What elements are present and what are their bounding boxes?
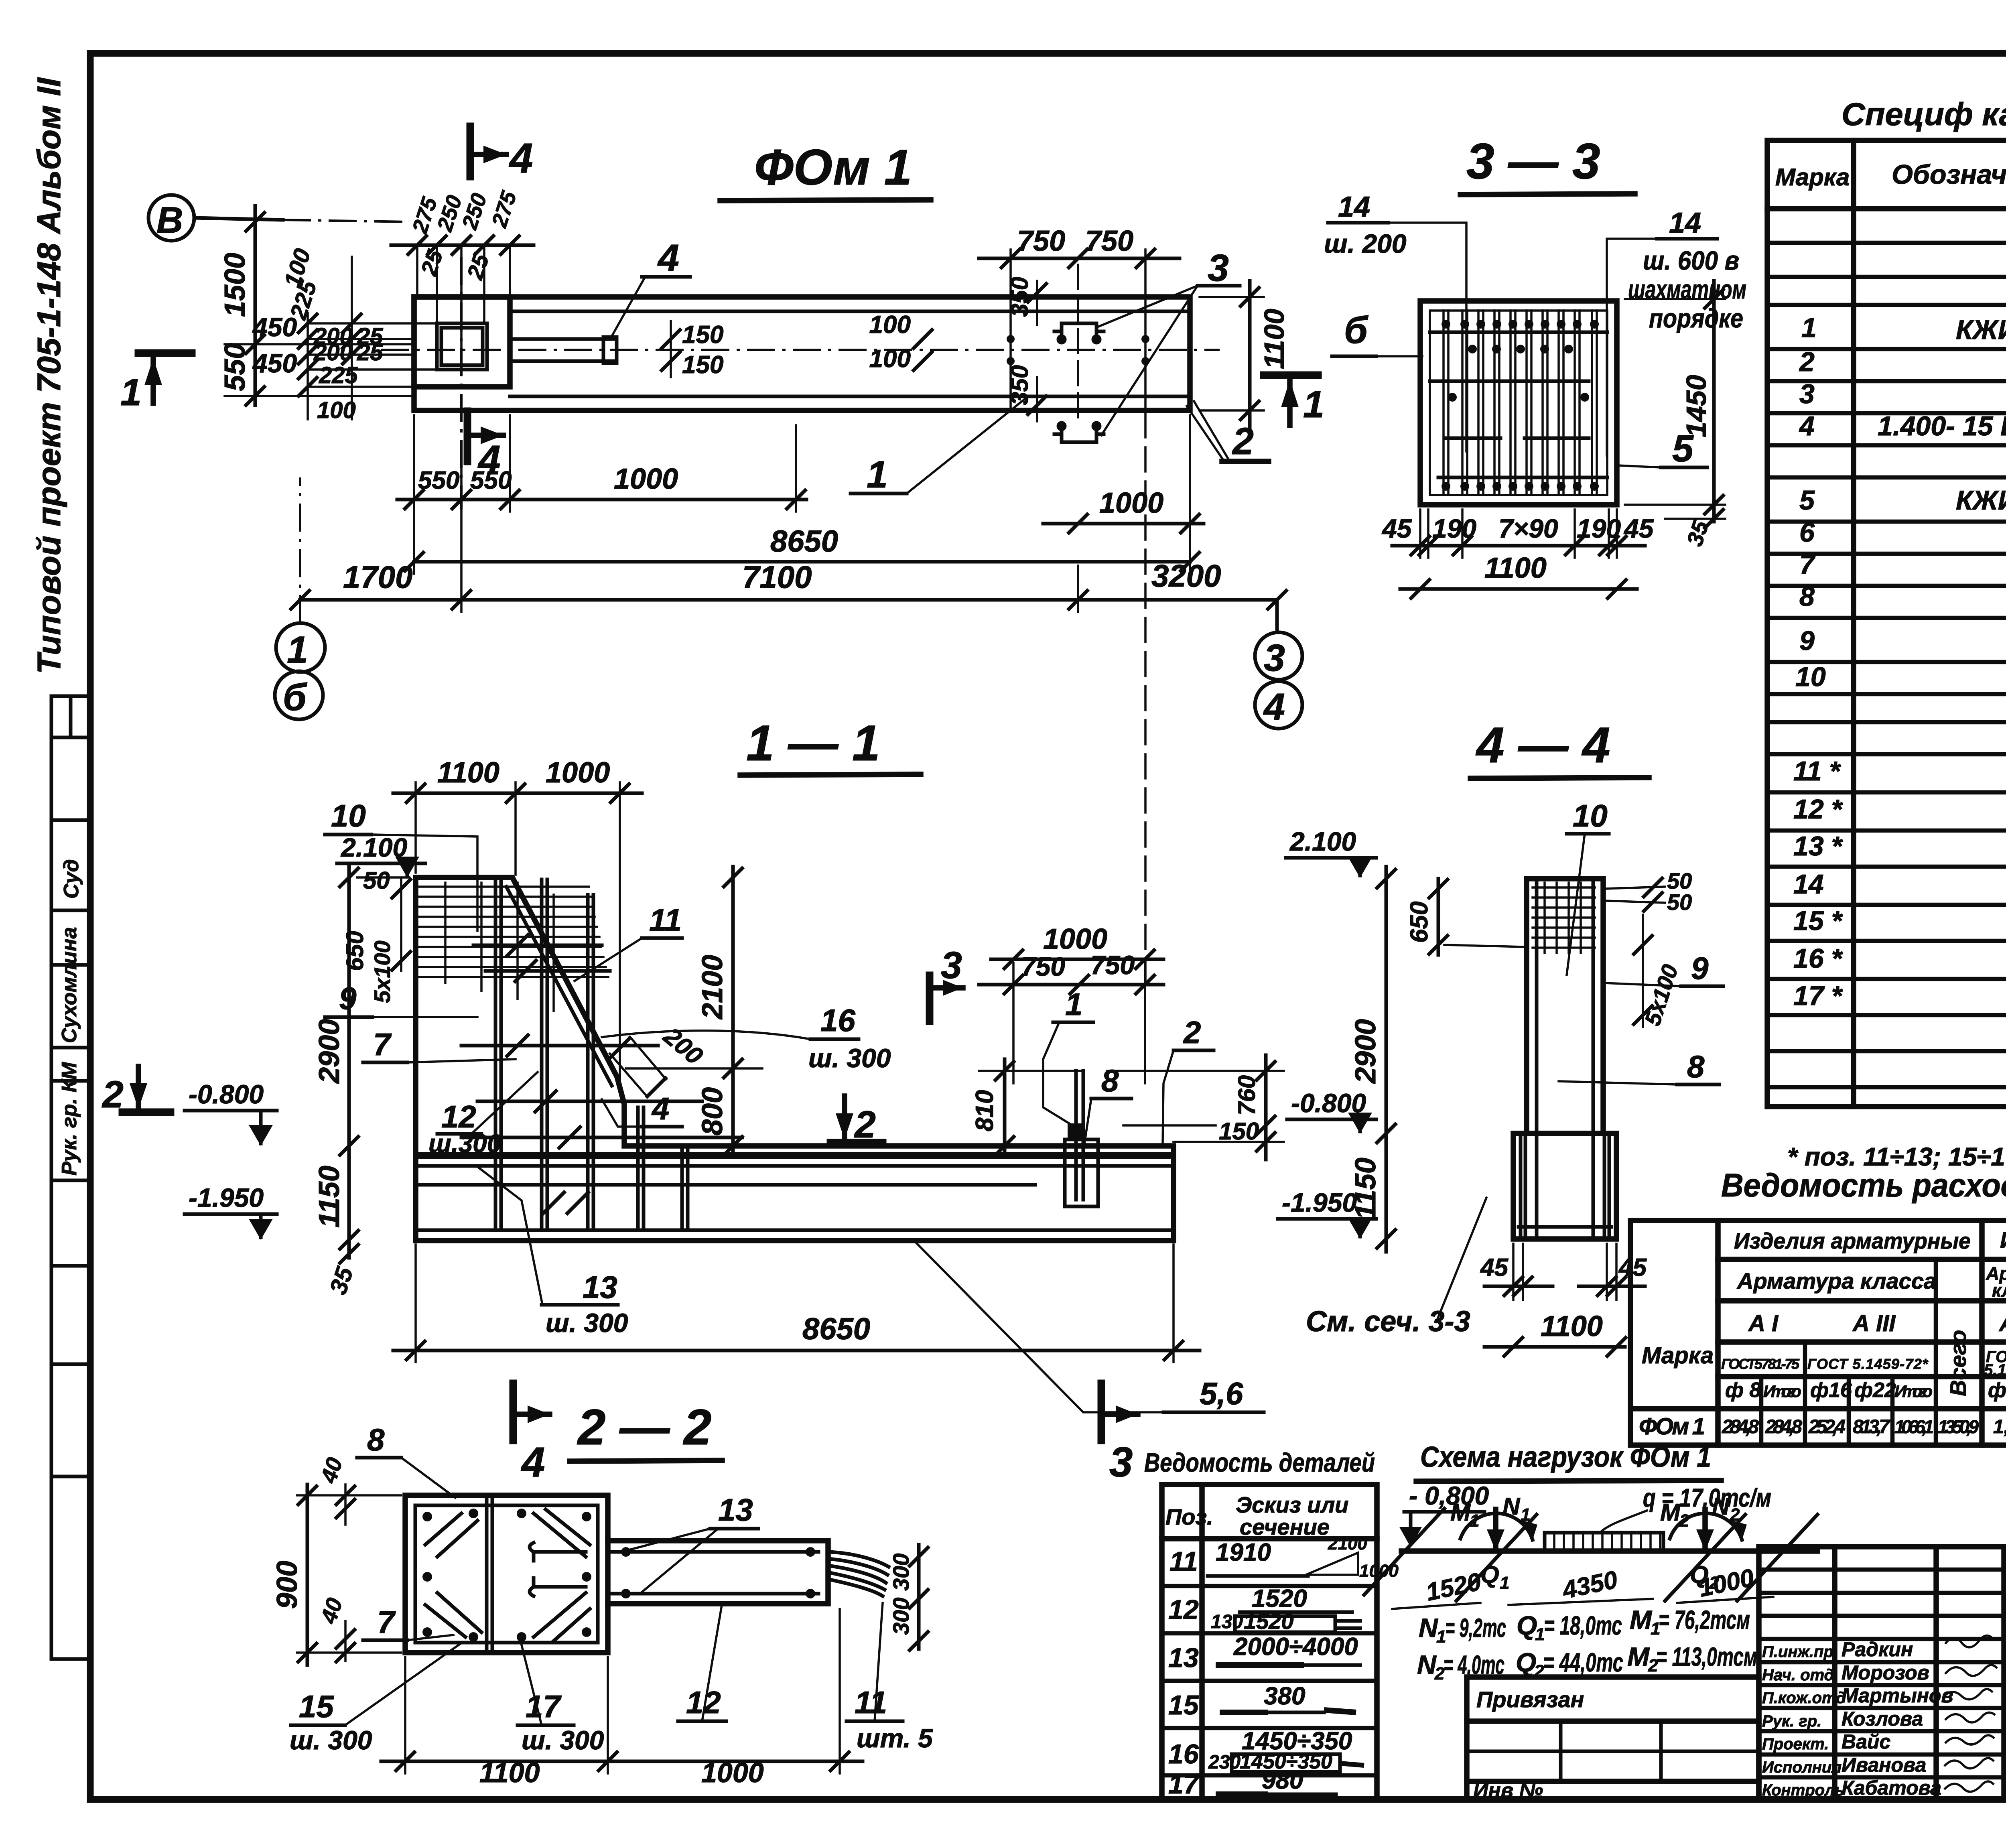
svg-text:1: 1 bbox=[1470, 1511, 1479, 1531]
section 1-1 mid bar line bbox=[417, 1183, 1035, 1187]
svg-text:ФОм 1: ФОм 1 bbox=[754, 140, 912, 195]
svg-text:10: 10 bbox=[331, 798, 366, 833]
svg-text:П.кож.отд: П.кож.отд bbox=[1762, 1689, 1846, 1707]
label 1 leader (embed) bbox=[1043, 987, 1093, 1123]
section 3-3 footing square bbox=[1420, 301, 1617, 505]
svg-text:Радкин: Радкин bbox=[1842, 1638, 1913, 1661]
section 3-3 title bbox=[1460, 134, 1635, 195]
spec row 1 bbox=[1801, 301, 2006, 352]
plan beam outline bbox=[414, 297, 1190, 410]
section marker 4 below 1-1 bbox=[513, 1383, 550, 1486]
svg-text:4: 4 bbox=[521, 1439, 545, 1486]
svg-text:813,7: 813,7 bbox=[1853, 1416, 1890, 1438]
label 8 (4-4) bbox=[1559, 1049, 1719, 1084]
svg-text:Итого: Итого bbox=[1894, 1382, 1933, 1401]
label 13 sh.300 (1-1) bbox=[477, 1167, 628, 1338]
top dims 275 250 250 275 over footing bbox=[391, 188, 534, 369]
svg-text:1,0: 1,0 bbox=[1993, 1416, 2006, 1438]
dim 760 150 right end of base bbox=[1107, 1055, 1284, 1160]
svg-text:25: 25 bbox=[357, 339, 383, 366]
svg-text:сечение: сечение bbox=[1240, 1514, 1330, 1539]
dims 50 50 5x100 right of 4-4 bbox=[1605, 868, 1692, 1029]
svg-text:N: N bbox=[1417, 1650, 1437, 1679]
section 3-3 rebar dots bbox=[1442, 320, 1599, 491]
label 7 (1-1) bbox=[363, 1027, 516, 1062]
svg-text:14: 14 bbox=[1793, 869, 1824, 900]
signature squiggles bbox=[1944, 1636, 1996, 1792]
plan footing square bbox=[414, 297, 510, 387]
label 17 sh.300 (2-2) bbox=[518, 1645, 604, 1755]
svg-text:11: 11 bbox=[649, 902, 682, 938]
dims 45 190 7x90 190 45 under 3-3 bbox=[1381, 510, 1654, 558]
section marker 2 (in 1-1) bbox=[830, 1096, 883, 1146]
section 1-1 mesh hatch top-left bbox=[419, 883, 608, 1011]
label 2 leader (embed right) bbox=[1163, 1015, 1214, 1143]
plan title FOm 1 bbox=[720, 140, 931, 201]
svg-text:252,4: 252,4 bbox=[1808, 1416, 1846, 1438]
svg-text:9: 9 bbox=[1799, 625, 1815, 656]
svg-text:11: 11 bbox=[855, 1685, 887, 1720]
svg-text:900: 900 bbox=[271, 1561, 303, 1609]
svg-text:10: 10 bbox=[1795, 662, 1826, 692]
dim 550 550 1000 under footing bbox=[397, 415, 806, 512]
svg-text:45: 45 bbox=[1623, 514, 1654, 543]
svg-text:2900: 2900 bbox=[313, 1019, 345, 1084]
svg-text:760: 760 bbox=[1233, 1075, 1260, 1115]
section 3-3 vertical rebars bbox=[1444, 311, 1597, 495]
axis circle 1 (left) bbox=[276, 623, 325, 672]
svg-text:Итого: Итого bbox=[1763, 1382, 1801, 1401]
section 1-1 rebar band 5,6 bbox=[418, 1156, 1171, 1166]
title block left rows bbox=[1759, 1570, 2006, 1777]
title block signatures bbox=[1762, 1638, 1953, 1799]
svg-text:= 76,2тсм: = 76,2тсм bbox=[1659, 1605, 1750, 1635]
svg-text:1000: 1000 bbox=[546, 757, 610, 789]
label 2 with leaders bbox=[1187, 401, 1269, 463]
svg-text:1100: 1100 bbox=[1541, 1310, 1603, 1342]
svg-text:М: М bbox=[1450, 1499, 1471, 1526]
svg-text:1000: 1000 bbox=[1099, 487, 1163, 519]
level mark 2.100 (1-1) bbox=[337, 833, 425, 877]
moment arc M1 N1 Q1 bbox=[1450, 1493, 1537, 1593]
label 9 (1-1) bbox=[325, 981, 477, 1017]
level mark -1.950 (1-1) bbox=[185, 1183, 277, 1240]
svg-text:3: 3 bbox=[1264, 637, 1285, 679]
label 1 with leader bbox=[851, 397, 1027, 496]
svg-text:1700: 1700 bbox=[343, 559, 413, 595]
svg-text:5: 5 bbox=[1799, 485, 1815, 516]
section marker 3 (in 1-1) bbox=[930, 944, 963, 1021]
section marker 1 (right) bbox=[1264, 375, 1324, 426]
dim 900 left of 2-2 bbox=[271, 1484, 401, 1665]
svg-text:350: 350 bbox=[1006, 277, 1033, 317]
svg-text:- 0,800: - 0,800 bbox=[1409, 1481, 1489, 1510]
svg-text:11 *: 11 * bbox=[1793, 756, 1841, 786]
svg-text:810: 810 bbox=[971, 1090, 999, 1131]
svg-text:ш. 300: ш. 300 bbox=[522, 1725, 604, 1755]
section 4-4 footing outline bbox=[1513, 1133, 1616, 1239]
svg-text:2000÷4000: 2000÷4000 bbox=[1233, 1633, 1358, 1661]
svg-text:650: 650 bbox=[1405, 902, 1433, 943]
left margin registration strip bbox=[51, 696, 90, 1659]
label 15 sh.300 (2-2) bbox=[290, 1643, 461, 1755]
dim 350 350 rotated near embeds bbox=[1006, 277, 1048, 421]
svg-text:Рук. гр.: Рук. гр. bbox=[1762, 1712, 1821, 1730]
svg-text:ФОм 1: ФОм 1 bbox=[1639, 1413, 1705, 1440]
section 4-4 column outline bbox=[1527, 879, 1603, 1235]
label 11 (1-1) bbox=[575, 902, 682, 981]
label 7 (2-2) bbox=[363, 1604, 453, 1640]
details table header bbox=[1165, 1492, 1348, 1539]
svg-text:1100: 1100 bbox=[437, 757, 499, 789]
svg-text:См. сеч. 3-3: См. сеч. 3-3 bbox=[1306, 1306, 1470, 1338]
details row 15 bbox=[1168, 1682, 1356, 1720]
svg-text:М: М bbox=[1660, 1499, 1681, 1526]
svg-text:Инв №: Инв № bbox=[1473, 1779, 1543, 1802]
svg-text:13: 13 bbox=[583, 1269, 617, 1305]
dim 2100 800 right of wall bbox=[626, 867, 762, 1156]
dim 810 (embed) bbox=[971, 1059, 1083, 1156]
label 12 (2-2) bbox=[678, 1603, 726, 1721]
svg-text:10: 10 bbox=[1573, 798, 1608, 833]
section 4-4 mesh hatch top bbox=[1533, 883, 1595, 953]
svg-text:Привязан: Привязан bbox=[1476, 1687, 1584, 1712]
svg-text:класса: класса bbox=[1992, 1280, 2006, 1301]
svg-text:ш. 300: ш. 300 bbox=[546, 1308, 628, 1338]
label 14 sh.200 bbox=[1324, 191, 1466, 451]
svg-text:2: 2 bbox=[1679, 1511, 1689, 1531]
section 2-2 inner hook bars bbox=[530, 1543, 586, 1596]
svg-text:4: 4 bbox=[657, 237, 679, 279]
axis dash line from circle 1 up bbox=[299, 477, 301, 623]
svg-text:б: б bbox=[1344, 309, 1368, 351]
label 9 (4-4) bbox=[1604, 950, 1723, 986]
label 16 sh.300 (1-1) bbox=[602, 1003, 891, 1073]
spec row 2 bbox=[1799, 347, 2006, 377]
dim 2900 1150 35 left of 1-1 bbox=[313, 867, 409, 1298]
svg-text:16 *: 16 * bbox=[1793, 943, 1844, 974]
svg-text:7: 7 bbox=[377, 1604, 396, 1640]
section marker 3 below 1-1 bbox=[1101, 1383, 1138, 1486]
svg-text:11: 11 bbox=[1169, 1546, 1198, 1577]
load scheme level -0.800 bbox=[1399, 1481, 1489, 1547]
label 11 sht.5 (2-2) bbox=[847, 1603, 933, 1753]
svg-text:= 9,2тс: = 9,2тс bbox=[1445, 1613, 1506, 1643]
label 5,6 (1-1) bbox=[915, 1241, 1264, 1412]
svg-text:980: 980 bbox=[1262, 1767, 1303, 1794]
svg-text:-1.950: -1.950 bbox=[189, 1183, 264, 1212]
dim 1100 right of beam bbox=[1200, 281, 1290, 427]
svg-text:4: 4 bbox=[509, 135, 533, 182]
steel table header texts bbox=[1642, 1227, 2006, 1402]
spec row 12 bbox=[1793, 790, 2006, 827]
svg-text:Арматура класса: Арматура класса bbox=[1736, 1268, 1936, 1294]
svg-text:12 *: 12 * bbox=[1793, 794, 1844, 824]
svg-text:3 — 3: 3 — 3 bbox=[1466, 134, 1600, 189]
svg-text:Морозов: Морозов bbox=[1842, 1661, 1929, 1684]
section marker 2 (left margin) bbox=[102, 1066, 171, 1116]
spec row 9 bbox=[1799, 614, 2006, 666]
svg-text:8: 8 bbox=[367, 1422, 385, 1457]
svg-text:= 44,0тс: = 44,0тс bbox=[1543, 1647, 1623, 1677]
svg-text:= 18,0тс: = 18,0тс bbox=[1544, 1610, 1622, 1640]
axis circle 3 (right) bbox=[1255, 632, 1302, 680]
svg-text:1350,9: 1350,9 bbox=[1938, 1416, 1979, 1437]
svg-text:8650: 8650 bbox=[770, 524, 838, 558]
section 1-1 title bbox=[740, 715, 921, 775]
svg-text:12: 12 bbox=[1168, 1594, 1199, 1625]
svg-text:100: 100 bbox=[869, 345, 911, 373]
svg-text:N: N bbox=[1419, 1613, 1438, 1643]
dim 35 below 1450 bbox=[1665, 508, 1725, 549]
svg-text:ф10: ф10 bbox=[1988, 1379, 2006, 1402]
svg-text:М: М bbox=[1630, 1605, 1653, 1635]
section 2-2 splayed bars right bbox=[828, 1552, 889, 1596]
svg-text:190: 190 bbox=[1432, 514, 1476, 543]
level mark -0.800 (4-4) bbox=[1287, 1088, 1376, 1133]
svg-text:50: 50 bbox=[1667, 889, 1692, 915]
svg-text:550: 550 bbox=[418, 467, 459, 494]
svg-text:1150: 1150 bbox=[313, 1166, 345, 1228]
svg-text:ф 8: ф 8 bbox=[1725, 1379, 1761, 1402]
svg-text:150: 150 bbox=[682, 321, 723, 349]
svg-text:2: 2 bbox=[1799, 347, 1815, 377]
slanted dim values bbox=[1392, 1564, 1773, 1609]
svg-text:= 113,0тсм: = 113,0тсм bbox=[1656, 1642, 1757, 1671]
svg-text:1100: 1100 bbox=[479, 1757, 540, 1788]
svg-text:9: 9 bbox=[339, 981, 357, 1016]
dims 45 45 under 4-4 bbox=[1480, 1244, 1647, 1300]
svg-text:2: 2 bbox=[102, 1073, 124, 1116]
svg-text:КЖИ- МнЗ: КЖИ- МнЗ bbox=[1956, 315, 2006, 345]
dim 40 top (2-2) bbox=[315, 1454, 356, 1525]
dim 650 (4-4) bbox=[1405, 878, 1525, 955]
label 4 leader (1-1) bbox=[602, 1091, 682, 1127]
svg-text:1: 1 bbox=[867, 453, 888, 496]
svg-text:Иванова: Иванова bbox=[1842, 1754, 1926, 1776]
section marker 1 (left) bbox=[120, 353, 192, 414]
svg-text:4: 4 bbox=[651, 1091, 669, 1126]
svg-text:Специф кация к фундаменту: Специф кация к фундаменту ФОм 1. bbox=[1842, 96, 2006, 132]
spec row 5 bbox=[1799, 473, 2006, 524]
section 1-1 wall ties bbox=[461, 935, 742, 1213]
section 2-2 beam stub bbox=[608, 1541, 828, 1604]
svg-text:1.400- 15 Вып. 1: 1.400- 15 Вып. 1 bbox=[1878, 411, 2006, 441]
svg-text:1450: 1450 bbox=[1681, 375, 1712, 437]
svg-text:8: 8 bbox=[1687, 1049, 1705, 1084]
svg-text:Марка: Марка bbox=[1775, 164, 1850, 191]
svg-text:N: N bbox=[1712, 1493, 1730, 1520]
svg-text:Кабатова: Кабатова bbox=[1842, 1777, 1941, 1799]
svg-text:750: 750 bbox=[1021, 952, 1065, 981]
spec row 15 bbox=[1793, 906, 2006, 938]
svg-text:Козлова: Козлова bbox=[1842, 1708, 1923, 1730]
svg-text:2.100: 2.100 bbox=[1289, 827, 1356, 856]
dims 300 300 right of 2-2 bbox=[888, 1545, 929, 1651]
svg-text:1: 1 bbox=[287, 629, 308, 671]
svg-text:Проект.: Проект. bbox=[1762, 1735, 1829, 1753]
svg-text:КЖИ- КР4: КЖИ- КР4 bbox=[1956, 485, 2006, 516]
moment arc M2 N2 Q2 bbox=[1660, 1493, 1747, 1593]
dim 1100 under 4-4 bbox=[1484, 1310, 1627, 1357]
svg-text:1: 1 bbox=[1500, 1573, 1509, 1593]
svg-text:ш.300: ш.300 bbox=[428, 1129, 501, 1158]
svg-text:16: 16 bbox=[820, 1003, 855, 1038]
svg-text:14: 14 bbox=[1669, 207, 1701, 239]
dim 1100 1000 under 2-2 bbox=[381, 1609, 863, 1788]
svg-text:В: В bbox=[156, 200, 183, 241]
svg-text:130: 130 bbox=[1211, 1611, 1243, 1633]
svg-text:7100: 7100 bbox=[742, 559, 812, 595]
svg-text:225: 225 bbox=[319, 362, 358, 388]
details row 11 bbox=[1169, 1534, 1399, 1581]
svg-text:284,8: 284,8 bbox=[1722, 1416, 1759, 1438]
embed dims 1000 750 750 (1-1 right) bbox=[979, 923, 1163, 1083]
svg-text:А III: А III bbox=[1998, 1311, 2006, 1336]
label 4 with leader to rail cap bbox=[611, 237, 690, 338]
svg-text:7: 7 bbox=[1799, 549, 1816, 580]
svg-text:100: 100 bbox=[869, 311, 911, 339]
section 4-4 title bbox=[1470, 717, 1649, 778]
section marker 4 bottom bbox=[467, 411, 504, 482]
svg-text:100: 100 bbox=[317, 397, 356, 423]
spec header texts bbox=[1775, 152, 2006, 203]
svg-text:380: 380 bbox=[1264, 1682, 1305, 1710]
svg-text:1: 1 bbox=[1065, 987, 1082, 1022]
svg-text:1000: 1000 bbox=[701, 1757, 764, 1788]
dim 1450 right of 3-3 bbox=[1625, 281, 1725, 522]
svg-text:Сухомлина: Сухомлина bbox=[58, 927, 81, 1043]
svg-text:450: 450 bbox=[252, 348, 297, 378]
label 14 sh.600 chess bbox=[1607, 207, 1746, 455]
svg-text:3: 3 bbox=[1208, 247, 1229, 289]
label 5 (3-3) bbox=[1618, 427, 1707, 470]
embed hook bottom (pos 3) bbox=[1054, 423, 1104, 442]
svg-text:М: М bbox=[1627, 1642, 1650, 1671]
svg-text:Ведомость расхода стали на: Ведомость расхода стали на элемент, 6 кг… bbox=[1721, 1167, 2006, 1204]
svg-text:300: 300 bbox=[888, 1554, 914, 1591]
dim 1100 under 3-3 bbox=[1400, 552, 1637, 599]
svg-text:8: 8 bbox=[1799, 581, 1815, 612]
embed vertical lines in plan bbox=[1011, 265, 1145, 425]
svg-text:2: 2 bbox=[854, 1103, 876, 1146]
svg-text:8650: 8650 bbox=[802, 1312, 870, 1346]
rail strip in plan bbox=[381, 257, 1220, 510]
svg-text:1500: 1500 bbox=[219, 253, 251, 317]
svg-text:Q: Q bbox=[1516, 1647, 1536, 1677]
svg-text:7: 7 bbox=[373, 1027, 392, 1062]
svg-text:Контроль: Контроль bbox=[1762, 1781, 1844, 1799]
dims 50 5x100 650 at mesh bbox=[341, 867, 412, 1003]
section 1-1 wall vertical rebars bbox=[495, 879, 688, 1227]
svg-text:Эскиз или: Эскиз или bbox=[1236, 1492, 1348, 1517]
details row 17 bbox=[1168, 1767, 1336, 1799]
dim 8650 under 1-1 bbox=[393, 1245, 1200, 1362]
svg-text:284,8: 284,8 bbox=[1765, 1416, 1802, 1438]
spec row 11 bbox=[1793, 751, 2006, 789]
spec row 14 bbox=[1793, 869, 2006, 902]
svg-text:15: 15 bbox=[299, 1689, 334, 1724]
svg-text:1: 1 bbox=[1436, 1627, 1446, 1647]
dim 750 750 above beam right bbox=[979, 225, 1180, 297]
axis dash line from circle 3 up bbox=[1275, 600, 1279, 632]
svg-text:2900: 2900 bbox=[1350, 1019, 1382, 1084]
svg-text:9: 9 bbox=[1691, 950, 1709, 986]
svg-text:4: 4 bbox=[1799, 411, 1815, 441]
details row 16 bbox=[1168, 1727, 1364, 1773]
svg-text:Всего: Всего bbox=[1945, 1330, 1971, 1396]
slanted axis strokes bbox=[1364, 1509, 1817, 1601]
dim 100 100 mid beam bbox=[869, 311, 1149, 373]
svg-text:б: б bbox=[283, 676, 307, 719]
svg-text:13 *: 13 * bbox=[1793, 831, 1844, 861]
embed hook top (pos 3) bbox=[1054, 323, 1104, 343]
svg-text:ф22: ф22 bbox=[1854, 1379, 1896, 1402]
svg-text:1150: 1150 bbox=[1350, 1158, 1382, 1220]
embed anchor in base (1-1) bbox=[1065, 413, 1145, 1206]
axis circle 4 (right) bbox=[1255, 681, 1302, 729]
label b (3-3) bbox=[1332, 309, 1422, 356]
left vertical dim 1500 550 bbox=[219, 206, 414, 406]
svg-text:350: 350 bbox=[1006, 365, 1033, 405]
svg-text:1100: 1100 bbox=[1484, 552, 1547, 584]
svg-text:4: 4 bbox=[1263, 686, 1285, 728]
svg-text:150: 150 bbox=[682, 351, 723, 379]
svg-text:45: 45 bbox=[1480, 1254, 1509, 1281]
left dims cluster 450 200 25 225 100 bbox=[252, 246, 437, 423]
dim 2900 1150 left of 4-4 bbox=[1350, 867, 1397, 1252]
svg-text:шт. 5: шт. 5 bbox=[857, 1723, 933, 1753]
dim 40 bottom (2-2) bbox=[315, 1595, 356, 1663]
section 1-1 concrete outline bbox=[416, 877, 1174, 1241]
svg-text:Суд: Суд bbox=[60, 859, 83, 899]
svg-text:Типовой проект 705-1-148 Ал: Типовой проект 705-1-148 Альбом II bbox=[31, 77, 67, 674]
dim 1700 7100 3200 bbox=[290, 465, 1287, 612]
svg-text:П.инж.пр.: П.инж.пр. bbox=[1762, 1643, 1838, 1661]
steel table grid bbox=[1630, 1220, 2006, 1445]
svg-text:ГОСТ5781-75: ГОСТ5781-75 bbox=[1721, 1356, 1800, 1372]
svg-text:1066,1: 1066,1 bbox=[1894, 1416, 1934, 1437]
load scheme title bbox=[1416, 1441, 1721, 1481]
spec row 3 bbox=[1799, 379, 2006, 409]
details row 12 bbox=[1168, 1585, 1360, 1634]
svg-text:2100: 2100 bbox=[1328, 1534, 1367, 1554]
svg-text:ш. 300: ш. 300 bbox=[290, 1725, 372, 1755]
svg-text:Марка: Марка bbox=[1642, 1342, 1714, 1369]
svg-text:17: 17 bbox=[526, 1689, 562, 1724]
dim 150 150 at rail bbox=[660, 321, 723, 379]
svg-text:6: 6 bbox=[1799, 517, 1815, 548]
spec row 16 bbox=[1793, 942, 2006, 981]
svg-text:15 *: 15 * bbox=[1793, 906, 1844, 936]
svg-text:ш. 200: ш. 200 bbox=[1324, 229, 1407, 258]
label 200 inclined dim bbox=[609, 1022, 708, 1098]
load scheme baseline bbox=[1401, 1548, 1817, 1554]
svg-text:15: 15 bbox=[1168, 1690, 1199, 1720]
section 2-2 corner diagonals bbox=[425, 1509, 590, 1641]
level mark 2.100 (4-4) bbox=[1286, 827, 1376, 878]
svg-text:4: 4 bbox=[477, 437, 501, 482]
spec row 8 bbox=[1799, 581, 2006, 612]
svg-text:-0.800: -0.800 bbox=[189, 1079, 264, 1109]
svg-text:190: 190 bbox=[1577, 514, 1621, 543]
label 8 (2-2) bbox=[357, 1422, 455, 1498]
dim 1100 1000 above 1-1 bbox=[393, 757, 642, 1079]
svg-text:2 — 2: 2 — 2 bbox=[577, 1399, 712, 1455]
label 12 sh.300 (1-1) bbox=[428, 1072, 538, 1158]
svg-text:14: 14 bbox=[1338, 191, 1370, 223]
svg-text:2: 2 bbox=[1183, 1015, 1201, 1050]
